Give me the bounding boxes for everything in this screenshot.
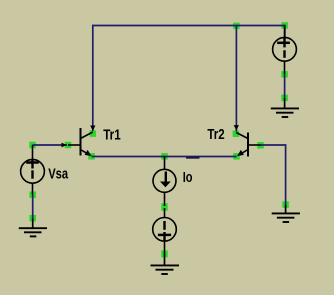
node Vsa bottom pin [29, 191, 36, 198]
node V2 top pin corner [281, 22, 288, 29]
node Tr2 collector [233, 131, 240, 138]
wire emitter rail [92, 157, 237, 158]
node Tr2 emitter [233, 153, 240, 160]
transistor Tr1 [68, 128, 93, 156]
node Tr2 base [257, 142, 264, 149]
wire arrow at Tr1 collector [90, 126, 95, 131]
svg-text:Tr2: Tr2 [207, 126, 224, 143]
svg-text:Vsa: Vsa [48, 165, 68, 182]
node Tr1 emitter [88, 153, 95, 160]
node ground pin left [29, 215, 36, 222]
ground (left, under Vsa) [19, 218, 47, 236]
voltage source V2 (top right) [273, 26, 297, 75]
voltage source V3 (below Io, minus up plus down) [153, 208, 177, 253]
wire top rail [93, 26, 285, 132]
node ground pin top right [281, 95, 288, 102]
ground (top right, under V2) [271, 98, 299, 117]
current source Io [153, 156, 176, 206]
node Tr1 collector [90, 130, 97, 137]
label Vsa [48, 165, 68, 182]
node Io top junction [161, 153, 168, 160]
ground (middle, under V3) [151, 253, 180, 274]
node Tr1 base [65, 142, 72, 149]
svg-text:Io: Io [183, 169, 193, 186]
wire Vsa to Tr1 base [33, 143, 68, 148]
label Io [183, 169, 193, 186]
wire collector Tr2 drop [235, 26, 237, 132]
transistor Tr2 [236, 133, 260, 157]
wire source V2 to ground [284, 74, 286, 98]
node Io bottom / V3 top pins [161, 203, 168, 211]
wire Vsa to ground [32, 195, 34, 219]
wire arrow at Tr2 collector [234, 125, 239, 130]
label Tr2 [207, 126, 224, 143]
ground (bottom right, Tr2 base) [272, 205, 300, 222]
label Tr1 [103, 127, 121, 144]
node V3 bottom / ground pins [161, 250, 168, 257]
node Vsa top pin [29, 142, 36, 149]
wire Tr2 base to ground [261, 145, 286, 205]
node ground pin bottom right [282, 201, 289, 208]
node V2 bottom pin [281, 71, 288, 78]
voltage source Vsa [21, 145, 45, 195]
svg-text:Tr1: Tr1 [103, 127, 121, 144]
node top rail junction [233, 23, 240, 30]
